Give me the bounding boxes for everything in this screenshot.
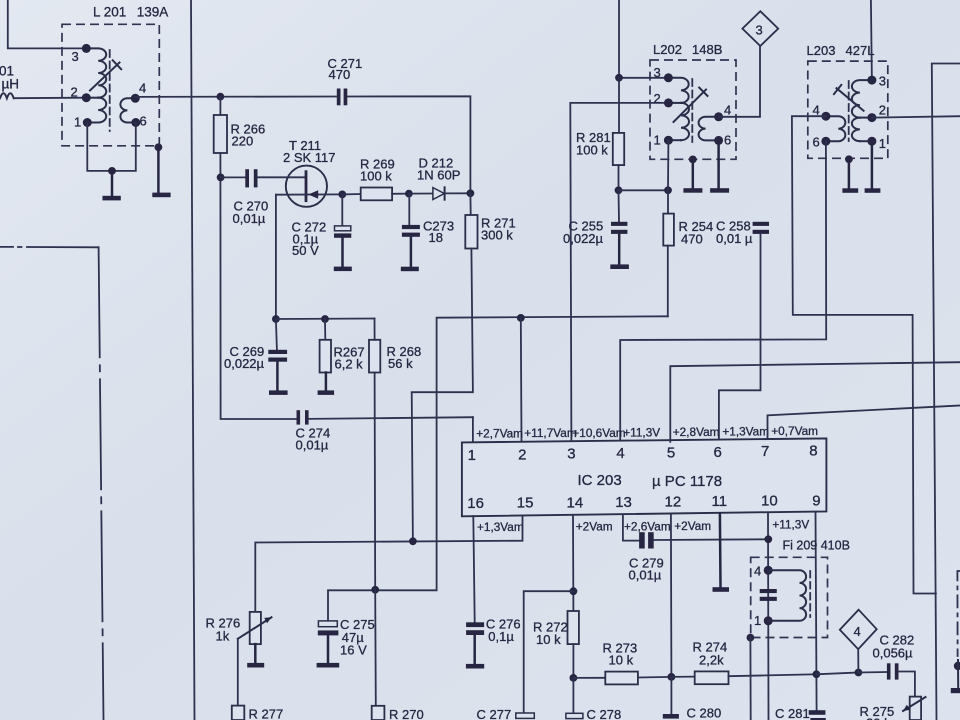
ground bar under L201 windings [103,196,121,201]
svg-text:16 V: 16 V [340,643,367,658]
wire IC pin10 riser down through Fi209 [767,513,770,720]
svg-text:300 k: 300 k [481,228,513,243]
Fi209 coil winding [768,570,806,620]
resistor R254 [663,190,713,246]
resistor R273 [603,641,638,685]
L203 core dashed line [848,81,850,141]
capacitor C271 [328,56,363,105]
junction node C281 top [813,670,821,678]
node on Fi209 box corner [747,634,755,642]
svg-text:+11,3V: +11,3V [623,425,660,439]
svg-text:0,01µ: 0,01µ [629,568,662,583]
svg-text:C 281: C 281 [775,706,810,720]
wire C279 to +11,3V node [654,538,769,541]
wire diamond 3 to L202 pin 4 [719,46,760,117]
svg-text:µ PC 1178: µ PC 1178 [652,473,722,490]
potentiometer R276 [206,612,272,644]
capacitor C281 [775,706,826,720]
wire C258 bottom to IC pin 6 [719,234,761,442]
wire diamond 4 stem [857,649,859,672]
svg-text:3: 3 [879,74,886,89]
L203 pin 2 [867,103,886,123]
ground bar C272 [334,267,352,272]
IC 203 uPC1178 body [462,438,827,516]
wire node to diamond4 node [816,673,858,675]
wire IC pin14 riser down to R272 [572,515,574,611]
capacitor C280 [663,706,721,720]
svg-text:+1,3Vam: +1,3Vam [477,520,524,534]
L202 pin 4 [714,103,731,122]
resistor R272 [533,611,579,678]
capacitor C277 [477,707,535,720]
svg-text:4: 4 [854,624,861,639]
wire L202 pin1 down [667,140,669,190]
svg-text:2: 2 [71,85,78,100]
wire L203 pin1 ground [871,141,874,188]
potentiometer R275 [860,697,926,720]
node on L202 box bottom [689,156,697,164]
svg-text:+2,6Vam: +2,6Vam [624,519,671,533]
svg-text:1: 1 [654,133,661,148]
svg-text:18: 18 [429,230,443,245]
svg-text:3: 3 [756,23,763,38]
svg-text:10 k: 10 k [609,653,634,668]
svg-text:+11,7Vam: +11,7Vam [524,426,577,440]
svg-text:C 280: C 280 [687,706,722,720]
junction node at R266 top [217,93,225,101]
capacitor C275 electrolytic [318,617,375,663]
wire from top edge to L201 pin 3 [8,0,85,48]
svg-text:14: 14 [567,494,584,511]
L202 tap stub pin2 [668,102,681,104]
svg-text:+2Vam: +2Vam [576,520,613,534]
resistor R271 [465,193,515,248]
L203 secondary winding [826,116,845,141]
svg-text:9: 9 [812,492,820,509]
svg-text:+2,7Vam: +2,7Vam [476,427,523,441]
resistor R267 [320,319,365,390]
transformer L201 dashed box [62,24,159,146]
L203 primary winding [852,80,872,118]
svg-text:1: 1 [879,136,886,151]
junction blob on shield ground lead [954,662,960,670]
svg-text:L202 148B: L202 148B [653,42,722,57]
L203 primary stub pin1 [860,140,872,142]
resistor R269 [342,157,409,201]
svg-text:0,01 µ: 0,01 µ [716,231,753,246]
wire IC pin13 riser to C279 [623,514,639,540]
wire L203 pin4 left down and right to x913 column [792,116,936,593]
svg-text:10 k: 10 k [536,632,561,647]
junction node on +1,3Vam rail [409,537,417,545]
node on L201 box bottom edge [155,143,163,151]
svg-text:220: 220 [232,134,254,149]
svg-text:6: 6 [813,135,820,150]
resistor R268 [369,340,421,373]
svg-text:12: 12 [665,494,682,511]
svg-text:470: 470 [681,232,703,247]
resistor R274 [693,640,729,685]
wire IC pin5 riser and +2,8 rail to right edge [670,362,960,442]
diode D212 1N60P [409,156,471,200]
junction node +11,3V [764,535,772,543]
svg-text:2,2k: 2,2k [699,653,724,668]
svg-text:0,01µ: 0,01µ [233,211,266,226]
svg-text:1: 1 [468,447,476,464]
junction node R281 bottom [615,186,623,194]
wire IC pin16 riser down to C276 [473,516,474,622]
L202 pin 2 [654,91,673,107]
L201 tuning arrow [90,60,121,90]
svg-text:0,056µ: 0,056µ [873,646,914,661]
capacitor C278 [566,707,621,720]
L203 tap stub pin2 [860,117,872,119]
wire IC pin12 riser down to R273 node [670,514,673,677]
junction node at C270 [217,174,225,182]
wire IC pin2 riser [520,318,523,442]
wire IC pin11 riser to ground [719,514,722,588]
bias rail wire [276,318,375,321]
capacitor C274 [296,410,473,452]
svg-text:1k: 1k [216,629,230,644]
svg-text:C 278: C 278 [587,707,622,720]
wire L203 shield ground [848,159,851,188]
L201 pin 2 [71,85,91,103]
transformer L203 dashed box [808,61,888,158]
wire node to ground [111,171,114,196]
junction node diamond 4 [855,669,863,677]
svg-text:6,2 k: 6,2 k [335,357,364,372]
svg-text:+1,3Vam: +1,3Vam [722,425,769,439]
junction node under L201 [108,167,116,175]
Fi209 core dashed line [809,571,811,617]
svg-text:3: 3 [654,65,661,80]
ground bar for L201 shield [152,193,170,198]
svg-text:L203 427L: L203 427L [807,43,875,58]
svg-text:0,022µ: 0,022µ [563,231,604,246]
svg-text:10: 10 [761,493,778,510]
wire L202 pin2 left and down to IC pin3 [570,103,668,442]
svg-text:µH: µH [2,77,20,92]
svg-text:3: 3 [567,446,575,463]
ground bar R276 [247,663,264,668]
svg-text:+10,6Vam: +10,6Vam [572,426,625,440]
ground bar L203 shield [842,188,858,193]
inductor L101 partial coil at left edge [0,93,14,98]
svg-text:IC 203: IC 203 [578,472,622,489]
wire bottom rail R272 to R273 [573,677,605,679]
capacitor C279 [629,532,664,582]
svg-text:2: 2 [654,91,661,106]
ground bar C269 [269,390,288,395]
capacitor C255 [563,190,627,264]
wire R281 bottom to L202 pin1 column [619,189,669,191]
wire R274 to C281 node [729,674,817,676]
junction node R254 top [664,186,672,194]
svg-text:3: 3 [72,49,79,64]
svg-text:2 SK 117: 2 SK 117 [283,150,336,165]
wire R254 bottom to AGC rail corner [667,246,669,317]
L202 tuning arrow [674,88,708,122]
resistor R266 [214,97,266,153]
L201 pin 6 [131,114,146,129]
svg-text:Fi 209 410B: Fi 209 410B [783,539,850,553]
wire T211 source down to bias node [275,195,277,319]
resistor R270 [372,590,424,720]
transformer L202 dashed box [650,60,736,159]
wire R276 bottom ground [254,644,257,663]
ground bar L203 pin1 [865,188,881,193]
resistor R277 [232,706,283,720]
svg-text:16: 16 [467,495,484,512]
svg-text:6: 6 [140,114,147,129]
svg-text:2: 2 [518,446,526,463]
L202 pin 1 [654,133,673,148]
wire IC pin7 riser and +0,7 rail to right edge [768,406,960,439]
L201 secondary coil winding [120,98,135,122]
L202 primary stub pin1 [668,139,681,141]
diamond terminal 3 [742,11,778,46]
wire Fi209 shield down off page [749,638,751,720]
svg-text:4: 4 [616,445,624,462]
capacitor C269 [224,319,287,390]
svg-text:0,01µ: 0,01µ [296,438,329,453]
svg-text:R 277: R 277 [249,707,284,720]
L203 tuning arrow [834,85,864,111]
L203 pin 6 [813,135,831,150]
svg-text:C 277: C 277 [477,707,512,720]
svg-text:7: 7 [761,443,769,460]
junction node R270 top [371,586,379,594]
svg-text:100 k: 100 k [576,143,608,158]
wire antenna coil to L201 pin 2 [14,97,85,100]
svg-text:+11,3V: +11,3V [772,517,809,531]
capacitor C282 [873,633,915,680]
wire C277 branch [524,591,574,713]
wire R273 to node [638,676,672,679]
wire L203 pin6 down left to IC pin4 [620,141,826,442]
svg-text:6: 6 [714,444,722,461]
svg-text:4: 4 [754,564,761,579]
svg-text:+2,8Vam: +2,8Vam [673,425,720,439]
main wire L201 pin4 to C271 and corner down to D212 node [135,96,470,193]
wire IC pin1 riser [472,417,474,442]
Fi209 pin 1 [754,613,773,628]
ground bar IC pin11 [713,587,730,592]
svg-text:+0,7Vam: +0,7Vam [771,424,818,438]
wire L202 pin3 to node [619,77,668,79]
wire L202 pin6 ground [717,140,720,188]
long vertical page divider wire [191,0,195,720]
L201 pin 3 [72,44,91,64]
L203 pin 1 [867,136,886,151]
svg-text:1N 60P: 1N 60P [417,168,460,183]
L202 pin 6 [714,133,731,148]
ground bar right edge [951,688,960,693]
junction node R281 top [615,74,623,82]
junction node C277 branch [570,587,578,595]
ground bar C255 [610,264,629,269]
ground bar C273 [401,267,419,272]
capacitor C276 [466,617,521,664]
diamond terminal 4 [840,610,877,650]
capacitor C272 electrolytic [292,194,352,266]
transistor T211 2SK117 [258,138,343,207]
wire node to R274 [671,676,694,678]
dash-dot boundary vertical [99,247,104,720]
junction node R267 top [321,315,329,323]
wire L203 pin2 to right edge [872,116,960,117]
wire R268 top [374,319,376,340]
wire node to C282 [858,671,886,674]
wire IC pin15 riser and +1,3Vam rail to R276 [255,516,522,612]
capacitor C258 [716,219,769,247]
svg-text:L 201 139A: L 201 139A [93,5,168,20]
junction node C280 top [668,673,676,681]
wire C280 branch down [670,677,672,714]
junction node D212 cathode / R271 [467,189,475,197]
wire R271 down and left to +1,3Vam rail [412,249,473,542]
ground bar L202 pin6 [710,188,729,193]
L203 pin 4 [813,103,831,121]
wire L203 pin3 up to top edge [871,0,872,80]
L203 pin 3 [867,74,886,89]
svg-text:0,1µ: 0,1µ [488,629,514,644]
svg-text:50 V: 50 V [292,243,319,258]
Fi209 pin 4 [754,564,773,579]
svg-text:4: 4 [139,81,146,96]
junction node C273 / D212 anode [405,190,413,198]
L202 pin 3 [654,65,673,82]
junction node bias rail left [272,315,280,323]
ground bar C275 [317,663,340,668]
svg-text:8: 8 [809,443,817,460]
ground bar C276 [466,664,484,669]
svg-text:56 k: 56 k [388,356,413,371]
wire L202 shield ground [692,159,695,188]
AGC wire C275 to R254 via x436 riser [328,316,668,621]
svg-text:0,022µ: 0,022µ [224,356,265,371]
L201 primary bottom stub to pin 1 [87,122,98,124]
capacitor C273 [402,194,454,267]
filter Fi209 dashed box [751,557,828,637]
svg-text:15: 15 [517,495,534,512]
L201 tap stub pin 2 [86,97,98,99]
svg-text:5: 5 [667,444,675,461]
dash-dot boundary horizontal [0,246,99,248]
svg-text:+2Vam: +2Vam [674,519,711,533]
svg-text:2: 2 [879,103,886,118]
wire R266 to C270 node and down to C274 corner [220,153,296,419]
svg-text:1: 1 [74,115,81,130]
wire L201 shield to ground [157,147,160,192]
wire top right corner vertical [932,64,960,720]
Fi209 internal capacitor [760,589,777,601]
L202 secondary winding [699,117,719,141]
L201 pin 1 [74,115,92,130]
dash-dot shield line right edge [957,571,960,656]
svg-text:R 270: R 270 [389,707,424,720]
L201 pins 1 and 6 ground wires [87,123,136,171]
L201 core dashed line [109,50,111,131]
svg-text:1: 1 [754,613,761,628]
svg-text:11: 11 [712,493,728,510]
svg-text:100 k: 100 k [360,169,392,184]
wire R268 bottom down to AGC line [374,373,377,590]
wire L202 pin3 node up to top edge [618,0,620,78]
capacitor C270 [221,169,269,226]
L201 primary coil winding [86,48,106,97]
junction node IC pin2 riser top [517,314,525,322]
junction node R272 bottom [570,674,578,682]
ground bar R267 [318,390,335,395]
L202 core dashed line [691,79,693,142]
wire shield ground lead [957,660,959,688]
wire C278 branch down [572,678,574,713]
svg-text:4: 4 [813,103,820,118]
svg-text:13: 13 [615,494,632,511]
svg-text:4: 4 [724,103,731,118]
wire R276 wiper down to R277 [237,639,239,706]
svg-text:470: 470 [329,67,351,82]
wire C282 to R275 [899,672,915,697]
wire IC pin9 riser down to C281 [816,512,817,710]
junction node R269 left / C272 [338,191,346,199]
node on L203 box bottom [845,155,853,163]
resistor R281 [576,78,624,191]
svg-text:20 k: 20 k [866,716,891,720]
svg-text:6: 6 [724,133,731,148]
ground bar L202 shield [683,188,702,193]
L202 primary winding [668,78,688,103]
L201 pin 4 [131,81,146,103]
